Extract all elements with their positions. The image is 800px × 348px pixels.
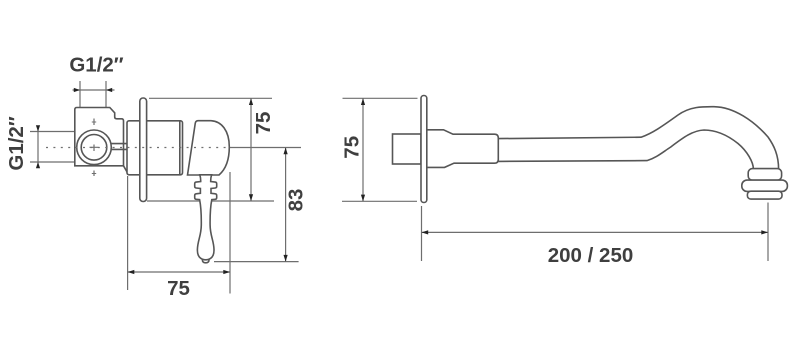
svg-text:75: 75 xyxy=(167,277,190,300)
spout bell ring1 xyxy=(748,169,781,181)
svg-text:75: 75 xyxy=(252,112,275,135)
dim 83: line xyxy=(285,148,287,262)
stub line right xyxy=(105,81,107,107)
svg-text:75: 75 xyxy=(341,136,364,159)
centerline vertical xyxy=(93,119,95,177)
extension line plate-bottom xyxy=(147,200,274,202)
ext line spout bottom xyxy=(342,200,417,202)
spout bell ring3 xyxy=(747,191,782,199)
arrow 83 bottom xyxy=(284,255,288,262)
arrow G1/2 left-dim bottom xyxy=(36,162,40,168)
dimension line G1/2 top xyxy=(73,89,115,91)
spout tube and curve xyxy=(498,107,778,170)
arrow 75s bottom xyxy=(361,195,365,202)
escutcheon plate xyxy=(140,98,147,202)
arrow 75r top xyxy=(249,98,253,105)
svg-text:83: 83 xyxy=(285,189,308,212)
dim 75 bottom: line xyxy=(128,271,230,273)
lever handle xyxy=(195,175,217,263)
neck body-to-cartridge xyxy=(109,144,127,150)
arrow 200 right xyxy=(761,230,768,234)
centerline extension to 83 dim xyxy=(230,147,301,149)
arrow G1/2 left-dim top xyxy=(36,125,40,131)
dim 200/250: line xyxy=(422,231,769,233)
valve body xyxy=(75,108,124,166)
cylinder inner edge xyxy=(179,121,181,175)
arrow G1/2 left xyxy=(74,88,80,92)
arrow 75b left xyxy=(128,270,135,274)
spout flange xyxy=(421,96,427,203)
spout base xyxy=(427,130,499,168)
center cross xyxy=(90,122,99,174)
ext line 200 right xyxy=(767,203,769,262)
extension line handle-bottom xyxy=(214,261,299,263)
cartridge cylinder xyxy=(127,121,183,175)
inlet circle inner xyxy=(81,135,107,161)
svg-text:200 / 250: 200 / 250 xyxy=(548,244,634,267)
dim 75 right: line xyxy=(250,98,252,201)
cap dome xyxy=(188,121,230,175)
chamfer body-to-cartridge xyxy=(124,166,129,175)
dimension line G1/2 left xyxy=(30,128,74,167)
extension line plate-top xyxy=(149,97,272,99)
inlet circle outer xyxy=(77,130,112,165)
svg-text:G1/2″: G1/2″ xyxy=(69,54,123,77)
arrow 75r bottom xyxy=(249,194,253,201)
handle tip line xyxy=(202,258,209,261)
arrow 75b right xyxy=(223,270,230,274)
arrow 83 top xyxy=(284,148,288,155)
spout bell ring2 xyxy=(742,180,788,191)
arrow 75s top xyxy=(361,98,365,105)
stub line left xyxy=(79,81,81,107)
ext line 200 left xyxy=(421,206,423,261)
spout inlet stub xyxy=(393,134,422,164)
centerline horizontal xyxy=(46,147,230,149)
ext line bottom75 right xyxy=(229,172,231,294)
arrow G1/2 right xyxy=(106,88,112,92)
ext line spout top xyxy=(343,97,418,99)
svg-text:G1/2″: G1/2″ xyxy=(5,116,28,170)
arrow 200 left xyxy=(422,230,429,234)
dim 75 spout: line xyxy=(362,98,364,201)
ext line bottom75 left xyxy=(127,176,129,290)
